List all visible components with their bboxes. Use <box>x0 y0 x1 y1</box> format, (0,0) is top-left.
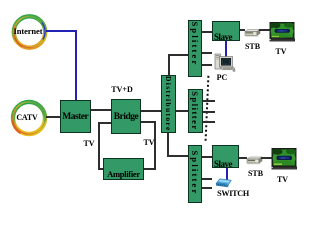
wire Splitter3->Slave2 <box>202 156 213 158</box>
box Distributore (vertical text) <box>161 75 176 133</box>
wire bypass loop right <box>141 121 156 123</box>
STB2 icon <box>245 155 263 167</box>
wire STB1->TV1 <box>259 29 271 31</box>
STB1 icon <box>243 28 261 39</box>
wire splitter3 stub1 <box>202 178 213 180</box>
box Bridge <box>111 99 141 135</box>
label SWITCH <box>214 189 252 198</box>
box Splitter3 (vertical text) <box>188 145 202 204</box>
wire splitter2 stub1 <box>203 100 215 102</box>
box Splitter1 (vertical text) <box>188 20 202 77</box>
node Internet (cloud circle) <box>9 11 51 53</box>
wire CATV->Master <box>46 116 60 118</box>
dotted ellipsis line <box>203 74 211 145</box>
label TV1 <box>270 47 292 56</box>
label TV2 <box>272 175 294 184</box>
wire Distributore->Splitter2 (right) <box>176 110 188 112</box>
label PC <box>212 73 232 82</box>
wire STB2->TV2 <box>261 157 272 159</box>
wire splitter2 stub3 <box>203 121 215 123</box>
wire Master->Bridge <box>91 109 112 111</box>
box Slave1 <box>212 21 240 41</box>
box Slave2 <box>212 145 239 168</box>
wire Slave2->STB2 <box>239 157 247 159</box>
PC icon <box>213 52 236 72</box>
wire splitter1 stub2 <box>202 64 213 66</box>
wire splitter1 stub1 <box>202 52 213 54</box>
SWITCH icon <box>215 177 232 188</box>
wire internet->master (blue) <box>46 30 77 32</box>
wire splitter3 stub2 <box>202 187 213 189</box>
label TV (left) <box>81 139 97 148</box>
TV1 icon <box>269 22 296 43</box>
TV2 icon <box>271 148 298 171</box>
wire Slave1->PC (blue) <box>225 41 227 59</box>
box Master <box>60 100 91 133</box>
wire Slave2->SWITCH (blue) <box>226 168 228 180</box>
wire Splitter1->Slave1 <box>202 31 213 33</box>
wire bypass loop left <box>98 122 112 124</box>
label STB1 <box>240 42 265 51</box>
wire Slave1->STB1 <box>240 29 245 31</box>
wire Bridge->Distributore <box>141 110 161 112</box>
node CATV (cloud circle) <box>8 97 50 139</box>
box Splitter2 (vertical text) <box>188 89 203 134</box>
label TV (right) <box>141 138 157 147</box>
wire Distributore->Splitter1 (up) <box>168 54 170 76</box>
label TV+D <box>108 85 136 94</box>
box Amplifier <box>103 158 144 180</box>
label STB2 <box>243 169 268 178</box>
wire splitter2 stub2 <box>203 111 216 113</box>
wire Distributore->Splitter3 (down) <box>167 133 169 156</box>
